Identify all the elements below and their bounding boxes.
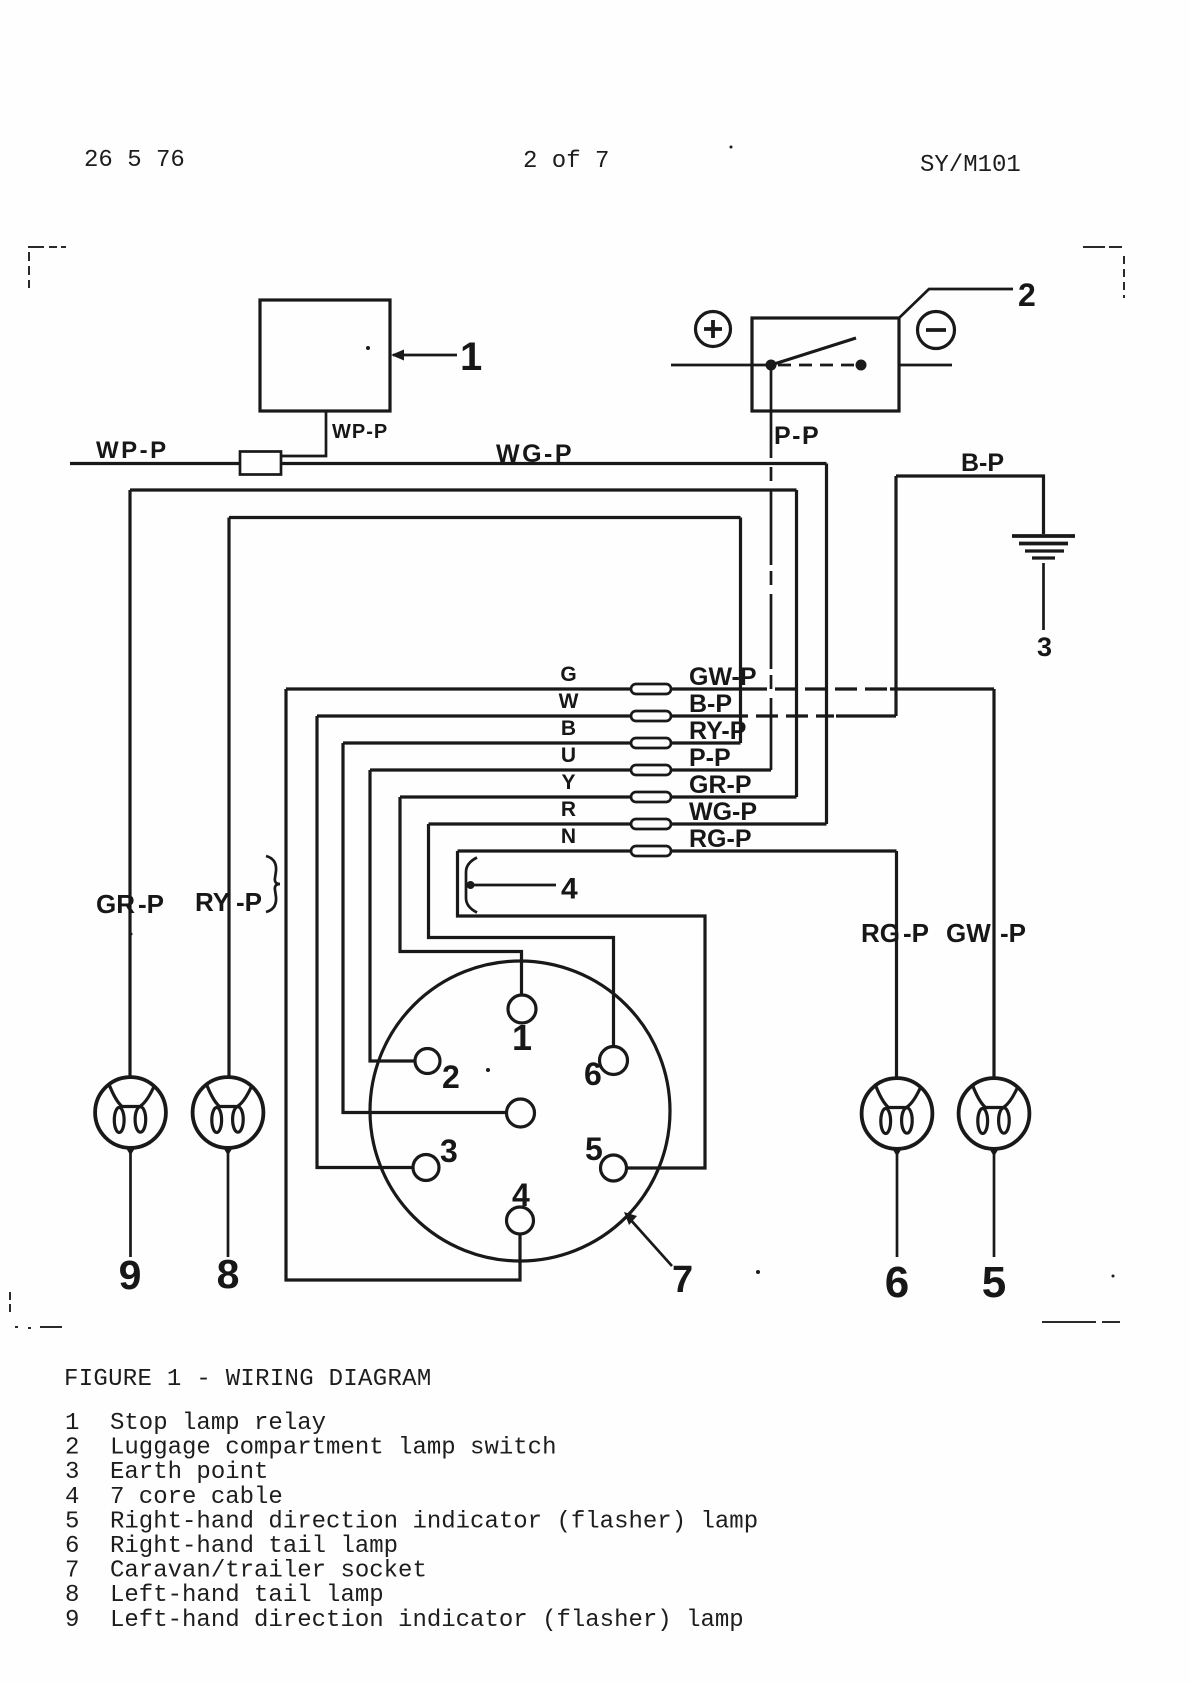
svg-text:-P: -P [236,887,262,917]
svg-text:6: 6 [65,1533,79,1560]
svg-text:R: R [561,798,576,821]
svg-text:Stop lamp relay: Stop lamp relay [110,1410,326,1437]
svg-text:GR-P: GR-P [689,771,752,799]
svg-text:G: G [560,663,576,686]
svg-text:WP-P: WP-P [96,437,169,464]
svg-text:3: 3 [1037,632,1052,662]
svg-text:P-P: P-P [689,744,731,772]
svg-text:Left-hand tail lamp: Left-hand tail lamp [110,1582,384,1609]
svg-text:Left-hand direction indicator: Left-hand direction indicator (flasher) … [110,1607,744,1634]
svg-text:3: 3 [65,1459,79,1486]
svg-text:GW-P: GW-P [689,663,757,691]
svg-text:P-P: P-P [774,422,820,450]
svg-text:GR: GR [96,889,135,919]
svg-text:GW: GW [946,918,991,948]
svg-text:RY: RY [195,887,230,917]
svg-text:4: 4 [512,1177,530,1213]
svg-text:5: 5 [65,1508,79,1535]
svg-text:5: 5 [585,1131,603,1167]
svg-text:7: 7 [65,1558,79,1585]
svg-text:2: 2 [442,1059,460,1095]
svg-text:N: N [561,825,576,848]
svg-text:7: 7 [672,1259,693,1301]
svg-text:4: 4 [65,1484,79,1511]
svg-text:1: 1 [512,1017,532,1058]
svg-text:5: 5 [982,1258,1006,1307]
svg-text:WG-P: WG-P [689,798,757,826]
svg-text:3: 3 [440,1133,458,1169]
svg-text:Right-hand direction indicator: Right-hand direction indicator (flasher)… [110,1508,758,1535]
svg-text:1: 1 [460,335,482,379]
svg-text:-P: -P [1000,918,1026,948]
svg-text:9: 9 [119,1252,142,1298]
svg-text:Earth point: Earth point [110,1459,268,1486]
svg-text:2: 2 [1018,277,1036,313]
svg-text:7 core cable: 7 core cable [110,1484,283,1511]
svg-text:-P: -P [903,918,929,948]
svg-text:Caravan/trailer socket: Caravan/trailer socket [110,1558,427,1585]
svg-text:RG: RG [861,918,900,948]
svg-text:B-P: B-P [689,690,732,718]
svg-text:8: 8 [217,1251,240,1297]
svg-text:26 5 76: 26 5 76 [84,147,185,174]
svg-text:-P: -P [138,889,164,919]
svg-text:B-P: B-P [961,449,1004,477]
svg-text:SY/M101: SY/M101 [920,152,1021,179]
svg-text:WP-P: WP-P [332,421,388,443]
svg-text:Right-hand tail lamp: Right-hand tail lamp [110,1533,398,1560]
svg-text:WG-P: WG-P [496,440,574,468]
svg-text:6: 6 [584,1056,602,1092]
svg-text:1: 1 [65,1410,79,1437]
svg-text:W: W [559,690,579,713]
svg-text:B: B [561,717,576,740]
svg-text:2: 2 [65,1435,79,1462]
svg-text:U: U [561,744,576,767]
svg-text:4: 4 [561,873,578,906]
svg-text:Y: Y [561,771,575,794]
svg-text:6: 6 [885,1258,909,1307]
svg-text:9: 9 [65,1607,79,1634]
svg-text:RG-P: RG-P [689,825,752,853]
svg-text:8: 8 [65,1582,79,1609]
svg-text:2 of 7: 2 of 7 [523,148,609,175]
svg-text:RY-P: RY-P [689,717,746,745]
svg-text:Luggage compartment lamp switc: Luggage compartment lamp switch [110,1435,556,1462]
svg-text:FIGURE 1 - WIRING DIAGRAM: FIGURE 1 - WIRING DIAGRAM [64,1366,432,1393]
